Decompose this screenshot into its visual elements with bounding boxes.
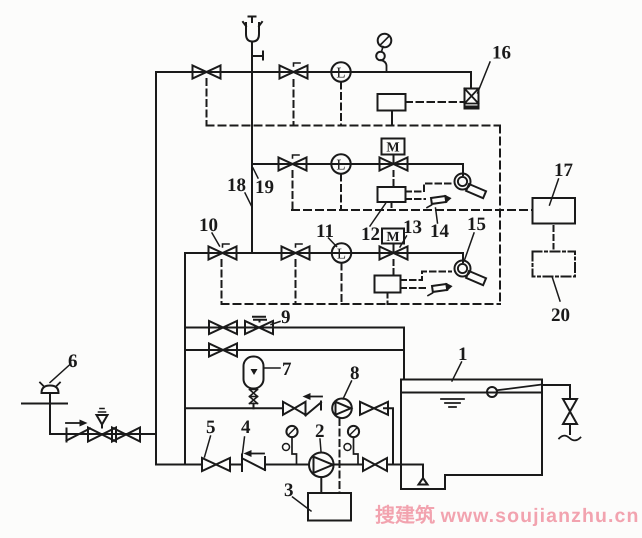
dashed bus mid y=210 to box 17 <box>292 209 533 211</box>
svg-text:L: L <box>336 158 345 174</box>
funnel drain on riser 18 <box>243 17 262 42</box>
twin vent valves under tank 7 <box>250 390 258 404</box>
dashed signal controller to detector row3 <box>401 287 428 289</box>
gate valve, inlet <box>112 428 140 442</box>
water surface symbol <box>441 399 464 407</box>
svg-text:20: 20 <box>551 305 570 326</box>
safety signal valve 9 <box>245 317 273 334</box>
dashed drop valve row1 left <box>206 79 208 126</box>
LABEL POINTER LINES <box>50 62 560 511</box>
svg-text:9: 9 <box>281 307 291 328</box>
dashed bus bottom y=304 <box>222 303 501 305</box>
alarm box near 16 <box>378 94 406 111</box>
control box 3 <box>308 493 351 521</box>
dashed bus right edge x=500 <box>499 126 501 305</box>
svg-text:17: 17 <box>554 160 574 181</box>
svg-text:7: 7 <box>282 359 292 380</box>
check valve pump8 <box>306 402 322 416</box>
svg-text:10: 10 <box>199 215 218 236</box>
wire: row 3 y=253 <box>185 253 463 262</box>
flow meter L row 3 <box>332 243 351 262</box>
dashed signal controller to cannon row3 <box>401 272 452 281</box>
dashed drop valve10 <box>221 260 223 304</box>
discharge pressure gauge <box>344 426 359 465</box>
float valve <box>487 385 542 398</box>
dashed link 17 to 20 <box>553 226 555 249</box>
svg-text:12: 12 <box>361 224 380 245</box>
detector 14 row 2 <box>427 195 451 207</box>
pump 2 (fire pump) <box>309 453 334 478</box>
wire: top test row y=72 <box>156 72 471 89</box>
check valve 4 <box>242 455 265 472</box>
wire: overflow down <box>569 424 571 434</box>
valve 10 row 3 <box>209 244 237 260</box>
wire: second vertical x=185 <box>184 253 186 464</box>
signal valve row 2 <box>279 155 307 171</box>
svg-text:1: 1 <box>458 344 468 365</box>
svg-text:M: M <box>386 141 399 156</box>
svg-text:19: 19 <box>255 177 274 198</box>
dashed bus top y=125.5 <box>207 125 501 127</box>
controller box row 2 <box>378 187 406 202</box>
overflow pipe right <box>542 385 570 399</box>
check valve, inlet <box>67 429 91 442</box>
svg-text:14: 14 <box>430 221 450 242</box>
svg-text:4: 4 <box>241 417 251 438</box>
valve pump8 discharge <box>360 402 388 415</box>
dashed drop valve row3 <box>295 260 297 304</box>
wire: bottom pump row y=464.5 <box>156 464 202 466</box>
wire: left main riser <box>155 72 157 464</box>
flow arrow right, inlet <box>66 420 88 427</box>
dashed drop valve row1 right <box>293 80 295 126</box>
flow arrow left, pump8 row <box>303 393 323 400</box>
dashed link M-valve to controller row2 <box>393 171 395 187</box>
svg-text:搜建筑 www.soujianzhu.cn: 搜建筑 www.soujianzhu.cn <box>375 504 639 527</box>
water cannon 15 row 2 <box>455 174 487 199</box>
wire: bottom row segments <box>230 465 423 479</box>
detector 14 row 3 <box>428 283 452 295</box>
pipe break squiggle <box>559 436 581 441</box>
dashed drop meter row3 <box>341 264 343 305</box>
water level line <box>401 392 542 394</box>
suction pressure gauge <box>283 426 298 465</box>
dashed control pump8 to box3 <box>339 419 341 493</box>
dashed drop controller row2 <box>391 202 393 210</box>
wire: row y=327.5 to tank fill <box>185 328 404 380</box>
motorized valve M row 2 <box>380 139 408 171</box>
svg-text:11: 11 <box>316 221 334 242</box>
tank 1 shell <box>401 380 542 490</box>
city main tick <box>22 403 67 405</box>
valve pump8 suction <box>283 402 306 415</box>
valve pump2 discharge side <box>363 458 387 471</box>
water flow indicator 16 (box with X) <box>465 89 479 109</box>
valve 5 <box>202 458 230 471</box>
pump 8 (circulating pump) <box>332 399 352 419</box>
wire: tank7 to pump8 row <box>253 404 255 409</box>
wire: inlet pipe <box>50 433 156 435</box>
test connection tick on riser 18 <box>252 52 263 60</box>
svg-text:5: 5 <box>206 417 216 438</box>
water cannon 15 row 3 <box>455 261 487 286</box>
controller box row 3 <box>375 276 401 293</box>
wire: row y=350 <box>185 349 404 351</box>
dashed link M-valve to controller row3 <box>393 260 395 276</box>
control panel 17 <box>533 198 576 224</box>
valve on row y=350 <box>209 344 237 357</box>
suction bell mouth in sump <box>419 465 428 485</box>
dashed drop meter row1 <box>340 83 342 126</box>
pressure reducing valve with relief <box>88 409 116 442</box>
wire: pump8 discharge to down-comer <box>384 408 393 464</box>
pressure gauge with cock, top row <box>376 34 391 72</box>
wire: pump8 row y=408 <box>185 407 283 409</box>
svg-text:3: 3 <box>284 480 294 501</box>
water meter 6 <box>40 383 60 394</box>
svg-text:L: L <box>336 66 345 82</box>
flow meter L top row <box>331 62 350 81</box>
wire: pump2 to box 3 <box>320 477 322 493</box>
dashed drop valve row2 <box>292 171 294 210</box>
dashed signal controller to detector row2 <box>406 198 426 200</box>
svg-text:15: 15 <box>467 214 486 235</box>
valve on bypass row y=327.5 <box>209 321 237 334</box>
remote box 20 (dash-dot) <box>533 252 576 277</box>
flow meter L row 2 <box>331 154 350 173</box>
dashed drop meter row2 <box>340 175 342 211</box>
pressure tank 7 <box>244 357 264 389</box>
svg-text:18: 18 <box>227 175 246 196</box>
dashed signal: box to indicator 16 <box>406 101 465 103</box>
flow arrow left, bottom row <box>244 450 265 457</box>
motorized valve M row 3 <box>380 229 408 260</box>
svg-text:L: L <box>337 247 346 263</box>
svg-text:6: 6 <box>68 351 78 372</box>
valve (gate) top row left <box>193 66 221 79</box>
signal valve top row right <box>280 63 308 79</box>
dashed drop controller row3 <box>387 293 389 305</box>
vertical valve on overflow <box>563 399 577 424</box>
wire: riser 18 (funnel stem) <box>251 42 253 253</box>
wire: box to top dashed bus <box>391 111 393 126</box>
svg-text:16: 16 <box>492 43 511 64</box>
signal valve row 3 <box>282 244 310 260</box>
wire: row 2 branch y=164 <box>252 164 463 175</box>
dashed signal controller to cannon row2 <box>406 184 454 192</box>
svg-text:13: 13 <box>403 217 422 238</box>
wire: meter stem <box>49 393 51 434</box>
